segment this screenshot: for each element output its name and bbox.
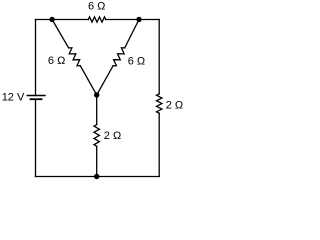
resistor R2 6 ohm (left diagonal zigzag) (69, 48, 81, 66)
node C (center junction of both diagonals and middle branch) (94, 92, 99, 97)
node A (junction top-left, top wire with left diagonal) (49, 17, 54, 22)
wire left upper (top-left corner down to battery positive plate) (35, 20, 37, 96)
wire center lower (resistor R5 down to node D) (96, 146, 98, 176)
resistor R1 6 ohm (top horizontal zigzag) (88, 17, 105, 22)
node B (junction top-right, top wire with right diagonal) (136, 17, 141, 22)
wire bottom (bottom-left corner through node D to bottom-right corner) (36, 176, 160, 178)
svg-text:6 Ω: 6 Ω (128, 55, 145, 67)
wire right upper (top-right corner down to resistor R4) (158, 20, 160, 94)
wire left lower (battery negative plate down to bottom-left corner) (35, 99, 37, 176)
node D (junction bottom wire with middle branch) (94, 174, 99, 179)
svg-text:6 Ω: 6 Ω (48, 55, 65, 67)
battery V1 negative plate (short) (31, 98, 42, 100)
resistor R4 2 ohm (right vertical zigzag) (157, 94, 162, 113)
svg-text:2 Ω: 2 Ω (104, 130, 121, 142)
wire top (right segment, from resistor R1 through node B to top-right corner) (106, 19, 160, 21)
svg-text:2 Ω: 2 Ω (166, 100, 183, 112)
svg-text:12 V: 12 V (2, 92, 25, 104)
resistor R5 2 ohm (bottom middle vertical zigzag) (94, 125, 99, 147)
wire diagonal right lower lead (resistor R3 down to node C) (97, 66, 113, 95)
wire right lower (resistor R4 down to bottom-right corner) (158, 113, 160, 176)
resistor R3 6 ohm (right diagonal zigzag) (113, 48, 125, 66)
wire diagonal left lower lead (resistor R2 down to node C) (80, 66, 96, 95)
wire center upper (node C down to resistor R5) (96, 95, 98, 125)
svg-text:6 Ω: 6 Ω (88, 1, 105, 13)
wire top (left segment, from top-left corner through node A to resistor R1) (36, 19, 89, 21)
battery V1 positive plate (long) (27, 95, 45, 97)
wire diagonal right upper lead (node B down to resistor R3) (125, 20, 139, 48)
wire diagonal left upper lead (node A down to resistor R2) (52, 20, 69, 48)
